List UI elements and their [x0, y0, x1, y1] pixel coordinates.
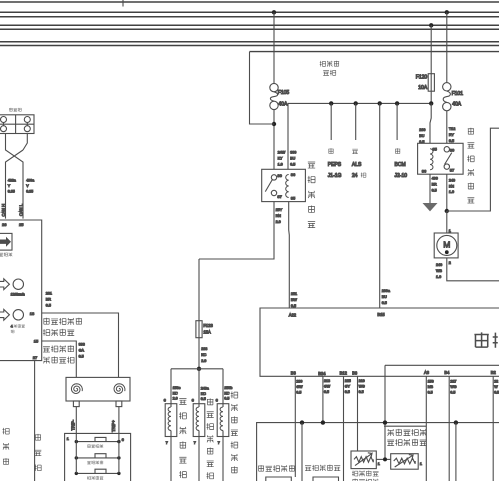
ECU box: instrument cluster (left, cut by image edge) — [0, 220, 42, 361]
switch row3 tiny label — [87, 476, 91, 479]
svg-text:A3: A3 — [424, 370, 430, 375]
svg-text:201: 201 — [46, 292, 52, 296]
svg-text:M: M — [443, 239, 450, 249]
svg-text:200a: 200a — [382, 289, 391, 293]
svg-text:T12: T12 — [449, 127, 455, 131]
spiral coil left — [71, 384, 82, 394]
svg-text:25: 25 — [19, 222, 24, 227]
wire: power bus line 3 — [0, 16, 499, 18]
wire: bus to fuse F101 — [446, 12, 448, 82]
svg-text:B15: B15 — [377, 312, 385, 317]
wire: B2 down to lower sensors — [492, 376, 494, 481]
svg-text:WG: WG — [359, 385, 365, 389]
svg-text:0.5: 0.5 — [296, 391, 301, 395]
wire: power bus line 2 — [0, 11, 499, 13]
svg-text:227: 227 — [450, 379, 456, 383]
wire: CAN L lead with twist — [6, 134, 28, 219]
svg-text:GW: GW — [324, 385, 331, 389]
wire: B12 down past evaporator sensor — [343, 376, 345, 481]
wire: stub to PEPS J1-1G — [330, 103, 332, 140]
svg-text:1.0: 1.0 — [436, 275, 441, 279]
svg-text:153c: 153c — [173, 386, 181, 390]
svg-text:F105: F105 — [278, 90, 290, 96]
svg-text:PEPS: PEPS — [328, 162, 342, 168]
net label: to ALS pin24 — [352, 149, 358, 154]
wire: partial bus line to right section — [250, 51, 499, 53]
svg-text:BR: BR — [432, 183, 437, 187]
svg-text:492a: 492a — [8, 179, 16, 183]
svg-text:233: 233 — [201, 347, 207, 351]
wire: bus to fuse F120 — [430, 25, 432, 73]
wire: pin18 steering key resistance input to clock spring — [42, 313, 119, 377]
ECU box: A/C control panel (cut at right edge) — [260, 308, 499, 376]
wire: drop to right mirror defroster — [222, 369, 224, 404]
svg-text:243a: 243a — [201, 387, 209, 391]
svg-text:383: 383 — [79, 343, 85, 347]
component name: right outside mirror defrost (vertical CJK) — [231, 391, 238, 398]
component name: left outside mirror defrost (vertical CJK) — [207, 398, 213, 405]
switch row3: button + resistor — [76, 472, 119, 474]
wire: gnd drop to inside temp sensor — [301, 423, 303, 481]
defrost relay switch contact pins 30/87 — [265, 175, 276, 196]
wire: stub to ALS pin 24 — [355, 103, 357, 140]
svg-text:0.35: 0.35 — [26, 190, 33, 194]
svg-text:259b: 259b — [224, 386, 232, 390]
indicator symbol: open arrow + lamp circle (speed signal) — [0, 309, 23, 320]
switch row1 tiny label — [87, 444, 90, 447]
svg-text:22: 22 — [494, 379, 498, 383]
wire: feed down to fuse F123 — [198, 259, 200, 321]
wire: A3 to right footwell outlet sensor — [425, 376, 427, 481]
heating element: left mirror defroster — [193, 404, 205, 437]
svg-text:240: 240 — [436, 263, 442, 267]
node: gnd tap sensor chain — [383, 420, 387, 424]
wire: motor pin 2 return, exits right edge — [447, 258, 499, 281]
svg-text:15: 15 — [34, 339, 39, 344]
svg-text:10A: 10A — [418, 85, 428, 91]
svg-text:0.5: 0.5 — [359, 390, 364, 394]
inner partition line of A/C panel — [385, 364, 499, 366]
svg-text:A22: A22 — [289, 312, 297, 317]
svg-text:F120: F120 — [416, 74, 428, 80]
svg-text:B6: B6 — [352, 371, 358, 376]
tiny label under arrow box — [0, 253, 3, 256]
wire: feed down to A/C control panel pin B15 — [379, 103, 381, 308]
svg-text:0.5: 0.5 — [224, 397, 229, 401]
fuse F123 15A — [196, 321, 214, 338]
svg-text:156: 156 — [428, 379, 434, 383]
fuse F101 40A — [443, 83, 464, 111]
svg-text:2.0: 2.0 — [173, 397, 178, 401]
svg-text:0.5: 0.5 — [291, 304, 296, 308]
defrost relay coil pins 86/85 — [286, 175, 289, 198]
sensor: inside temperature sensor (CJK label) — [258, 465, 264, 471]
wire: left mirror defroster return to bottom edge — [198, 437, 200, 481]
wire: digital ground from cluster bottom — [34, 361, 36, 481]
node: tap to ALS — [354, 101, 358, 105]
svg-text:0.35: 0.35 — [8, 190, 15, 194]
svg-text:40A: 40A — [278, 102, 288, 108]
svg-text:0.5: 0.5 — [428, 391, 433, 395]
svg-text:GW: GW — [296, 385, 303, 389]
svg-text:200: 200 — [419, 128, 425, 132]
svg-text:0.5: 0.5 — [450, 391, 455, 395]
svg-text:0.5: 0.5 — [382, 301, 387, 305]
wire: clock spring to switch pack left — [75, 407, 77, 434]
svg-text:490a: 490a — [26, 179, 34, 183]
svg-text:0.5: 0.5 — [345, 390, 350, 394]
evaporator sensor thermistor symbol — [354, 457, 373, 463]
inside temp sensor element box (cut) — [266, 477, 292, 481]
svg-text:25Y: 25Y — [276, 208, 283, 212]
indicator symbol: arrow in box — [0, 233, 12, 250]
wire: F120 output to distribution node — [430, 91, 432, 103]
svg-text:0.5: 0.5 — [46, 303, 51, 307]
relay K-blower box — [418, 143, 464, 174]
wire: clock spring to switch pack right — [118, 407, 120, 434]
wire: power bus line 1 — [0, 1, 499, 3]
svg-text:85: 85 — [432, 146, 437, 151]
blower relay switch pins 30/87 — [444, 147, 452, 170]
svg-text:24: 24 — [352, 173, 358, 179]
right footwell outlet sensor name (CJK 2 lines) — [388, 429, 394, 436]
svg-text:251: 251 — [291, 292, 297, 296]
svg-text:120km/h: 120km/h — [11, 292, 25, 296]
svg-text:0.5: 0.5 — [449, 139, 454, 143]
svg-text:KN: KN — [449, 184, 454, 188]
svg-text:210: 210 — [359, 379, 365, 383]
svg-text:0.5: 0.5 — [324, 390, 329, 394]
svg-text:0.5: 0.5 — [432, 188, 437, 192]
svg-text:0.5: 0.5 — [419, 140, 424, 144]
connector pin square right — [116, 401, 122, 407]
node: tap to PEPS — [329, 101, 333, 105]
wire: bus to fuse F105 — [273, 12, 275, 83]
svg-text:KC: KC — [224, 391, 229, 395]
wire: rear window defogger return to bottom edge — [170, 437, 172, 481]
component name: A/C control panel (large CJK, cut) — [474, 332, 488, 347]
connector pin square left — [73, 401, 79, 407]
svg-text:30: 30 — [450, 147, 455, 152]
indicator symbol: open arrow + lamp circle (speed warning) — [0, 279, 23, 290]
svg-text:2.0: 2.0 — [201, 359, 206, 363]
svg-text:CAN L: CAN L — [19, 203, 24, 216]
wire: sensor ground bus — [257, 423, 499, 481]
svg-text:230: 230 — [296, 379, 302, 383]
wire: F101 output to blower relay pin 30 — [446, 111, 448, 144]
svg-text:225: 225 — [345, 379, 351, 383]
component name: blower relay (vertical CJK) — [468, 128, 474, 134]
svg-text:240: 240 — [449, 178, 455, 182]
svg-text:BCM: BCM — [395, 162, 406, 168]
svg-text:300: 300 — [290, 151, 296, 155]
component name: rear window defogger (vertical CJK) — [179, 398, 186, 404]
wire: distribution node down to blower relay coil pin 85 — [430, 103, 431, 143]
svg-text:CAN H: CAN H — [1, 204, 6, 217]
svg-text:MB: MB — [428, 385, 434, 389]
steering wheel button pack box (cut at bottom) — [65, 433, 131, 481]
fuse F105 40A — [270, 83, 290, 109]
svg-text:86: 86 — [291, 172, 296, 177]
outside temp sensor element box (cut) — [313, 477, 339, 481]
svg-text:30: 30 — [277, 173, 282, 178]
svg-text:KC: KC — [173, 391, 178, 395]
node: gnd tap right sensors — [454, 420, 458, 424]
svg-text:BU: BU — [290, 157, 295, 161]
net label: digital ground (vertical CJK) — [35, 434, 41, 440]
ground symbol (chassis) — [423, 203, 438, 211]
relay K-defrost box — [262, 169, 306, 201]
fuse F120 10A — [416, 74, 435, 92]
svg-text:4: 4 — [11, 325, 13, 329]
wire: power bus line 4 — [0, 24, 499, 26]
svg-text:B3: B3 — [291, 370, 297, 375]
wire: F123 output to heater distribution — [198, 338, 200, 369]
svg-text:WG: WG — [450, 385, 456, 389]
sensor: outside temperature sensor (CJK label) — [305, 466, 311, 471]
heating element: rear window defogger — [165, 404, 177, 437]
wire: power bus line 7 — [0, 45, 499, 47]
wire: right mirror defroster return to bottom edge — [222, 437, 224, 481]
node: heater distribution junction — [197, 367, 201, 371]
svg-text:0.5: 0.5 — [201, 397, 206, 401]
wire: partition corner down to sensor chain — [384, 365, 386, 459]
svg-text:87: 87 — [277, 194, 282, 199]
wire: relay 87 down to motor node — [446, 174, 448, 211]
switch row2: button + resistor — [76, 457, 119, 459]
svg-text:B12: B12 — [340, 371, 348, 376]
wire: relay 87 output down-left to F123 — [199, 202, 274, 259]
svg-text:26: 26 — [2, 222, 7, 227]
wire: heater distribution line — [171, 368, 223, 370]
right footwell sensor thermistor box — [391, 454, 419, 470]
wire: drop to rear window defogger — [170, 369, 172, 404]
svg-text:KC: KC — [201, 392, 206, 396]
wire: B4 down to lower sensors — [448, 376, 450, 481]
node: gnd tap B24 — [321, 420, 325, 424]
wire: B3 to inside temp sensor — [294, 376, 296, 477]
svg-text:BU: BU — [419, 134, 424, 138]
svg-text:BR: BR — [46, 298, 51, 302]
wire: power bus line 6 — [0, 41, 499, 43]
connector: data link (4 terminals) — [0, 115, 34, 134]
node: tap to BCM — [395, 101, 399, 105]
wire: coil 86 to ground — [429, 174, 431, 203]
svg-text:KC: KC — [201, 353, 206, 357]
svg-text:BU: BU — [382, 295, 387, 299]
svg-text:J2-10: J2-10 — [395, 173, 408, 179]
node: junction on bus line 4 feeding F120 — [429, 23, 433, 27]
heating element: right mirror defroster — [217, 404, 229, 437]
clock spring (spiral cable) box — [66, 377, 130, 401]
svg-text:400: 400 — [432, 177, 438, 181]
svg-text:RY: RY — [449, 133, 455, 137]
right footwell thermistor symbol — [394, 458, 416, 464]
svg-text:0.5: 0.5 — [494, 391, 499, 395]
svg-text:0.5: 0.5 — [79, 354, 84, 358]
net label: to BCM J2-10 — [395, 148, 400, 153]
svg-text:J1-1G: J1-1G — [328, 173, 342, 179]
node: F120 output junction — [429, 101, 433, 105]
spiral coil right — [114, 384, 125, 394]
pin function label: steering wheel key resistance input (CJK) — [43, 318, 49, 324]
svg-text:87: 87 — [450, 167, 455, 172]
wire: power bus line 5 — [0, 28, 499, 30]
blower motor M1 — [434, 233, 458, 258]
svg-text:GY: GY — [345, 385, 351, 389]
svg-text:TRIP-: TRIP- — [71, 419, 76, 430]
component name: defrost relay (vertical CJK) — [308, 162, 315, 168]
svg-text:86: 86 — [422, 169, 427, 174]
wire: drop to left mirror defroster — [198, 369, 200, 404]
blower relay coil pins 85/86 — [430, 149, 433, 170]
wire: loop from right edge into motor node — [447, 128, 499, 211]
wire: B6 to evaporator temp sensor — [357, 376, 359, 451]
wire: F105 output down to defrost relay pin 30 — [273, 110, 275, 170]
switch row1: button + resistor — [76, 441, 119, 443]
svg-text:BW: BW — [291, 298, 297, 302]
evaporator sensor name (CJK, cut) — [352, 471, 358, 477]
svg-text:18: 18 — [30, 311, 35, 316]
wire: B24 to sensor ground bus — [322, 376, 324, 422]
node: junction on bus line 2 feeding F101 — [445, 10, 449, 14]
node: chain junction — [383, 457, 387, 461]
node: gnd tap inside temp sensor — [300, 420, 304, 424]
svg-text:B4: B4 — [444, 370, 450, 375]
svg-text:W: W — [494, 385, 498, 389]
switch row2 tiny label — [87, 461, 91, 464]
node: tap to A/C panel B15 — [378, 101, 382, 105]
wire: switch pack inner verticals — [75, 433, 77, 473]
sensor: evaporator temperature sensor box — [351, 451, 376, 469]
svg-text:B24: B24 — [318, 371, 326, 376]
wire: CAN H lead with twist — [6, 134, 24, 219]
wire: stub to BCM J2-10 — [396, 103, 398, 140]
svg-text:0.5: 0.5 — [290, 162, 295, 166]
svg-text:F101: F101 — [452, 91, 464, 97]
svg-text:WB: WB — [436, 269, 442, 273]
wire: L-link from partial bus line down to F105 output node — [250, 52, 275, 124]
svg-text:2.0: 2.0 — [276, 220, 281, 224]
svg-text:85: 85 — [291, 196, 296, 201]
svg-text:B2: B2 — [491, 370, 497, 375]
connector name label (tiny CJK) — [9, 108, 12, 111]
sensor: right footwell outlet sensor box (cut) — [384, 425, 426, 427]
wire: gnd drop right section — [455, 423, 457, 481]
svg-text:TRIP+: TRIP+ — [111, 420, 116, 432]
wire: fused feed distribution line (F120 output) — [288, 103, 431, 169]
pin function label: steering wheel key resistance ground (CJK) — [43, 346, 50, 352]
svg-text:F123: F123 — [203, 323, 213, 328]
wire: relay coil 85 down to A/C panel pin A22 — [288, 202, 291, 308]
svg-text:15A: 15A — [203, 330, 211, 335]
wire: evaporator sensor to chain — [376, 458, 390, 460]
svg-text:RN: RN — [276, 214, 282, 218]
svg-text:40A: 40A — [452, 101, 462, 107]
node: motor feed junction — [445, 209, 449, 213]
wire: motor node to motor pin 1 — [446, 211, 448, 233]
node: junction on bus line 2 feeding F105 — [272, 10, 276, 14]
wire: stub crossing top line at x=123 — [122, 0, 124, 7]
net label: body ground (vertical CJK, cut at edge) — [3, 428, 10, 434]
net label: to PEPS J1-1G — [328, 148, 333, 153]
svg-text:1.0: 1.0 — [449, 190, 454, 194]
svg-text:ALS: ALS — [352, 162, 362, 168]
svg-text:27: 27 — [33, 355, 38, 360]
svg-text:24W: 24W — [278, 151, 286, 155]
svg-text:KY: KY — [278, 157, 283, 161]
svg-text:1.0: 1.0 — [278, 162, 283, 166]
node: junction F105 output / loop wire — [272, 122, 276, 126]
net label: to interior mirror (CJK 2 lines) — [320, 61, 326, 67]
wire: pin15 steering key resistance gnd to clock spring — [42, 341, 77, 377]
svg-text:GA: GA — [79, 349, 85, 353]
svg-text:213: 213 — [324, 379, 330, 383]
